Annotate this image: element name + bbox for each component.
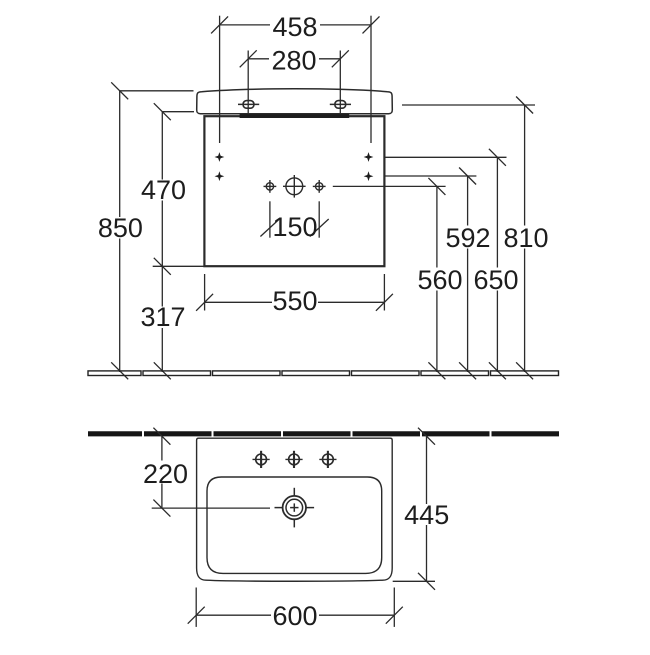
svg-text:150: 150: [272, 212, 317, 242]
svg-text:850: 850: [98, 213, 143, 243]
svg-text:458: 458: [272, 12, 317, 42]
svg-text:600: 600: [272, 601, 317, 631]
svg-text:810: 810: [503, 223, 548, 253]
svg-text:280: 280: [271, 45, 316, 75]
svg-text:445: 445: [404, 500, 449, 530]
svg-text:650: 650: [473, 265, 518, 295]
svg-text:560: 560: [417, 265, 462, 295]
svg-text:220: 220: [143, 459, 188, 489]
svg-text:317: 317: [140, 302, 185, 332]
svg-text:550: 550: [272, 286, 317, 316]
svg-text:470: 470: [141, 175, 186, 205]
svg-text:592: 592: [445, 223, 490, 253]
